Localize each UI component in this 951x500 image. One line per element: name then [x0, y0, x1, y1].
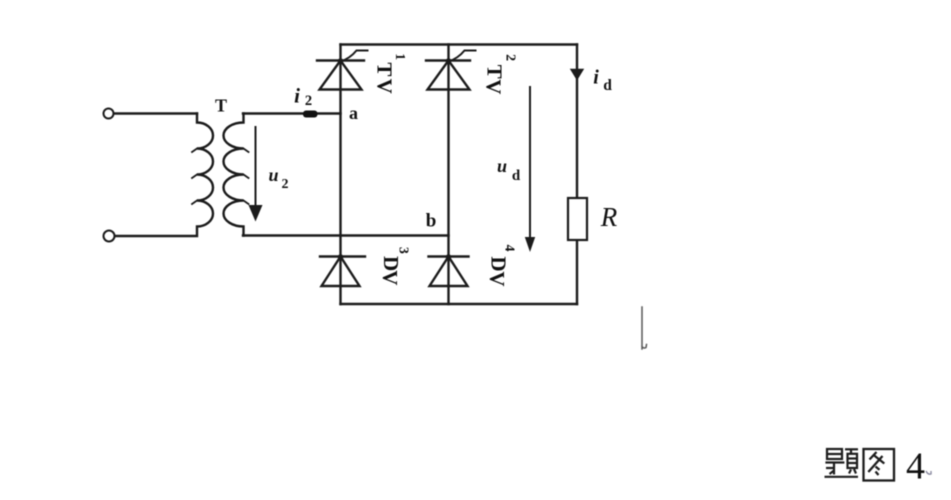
wire bottom rail — [341, 303, 578, 305]
transformer T primary winding — [115, 114, 213, 237]
label VD4 — [485, 245, 517, 287]
label VT2 — [482, 54, 518, 94]
svg-text:1: 1 — [392, 53, 407, 60]
arrow ud — [525, 87, 535, 252]
svg-text:D: D — [379, 256, 403, 271]
wire bridge right leg lower — [576, 240, 578, 304]
wire bridge middle leg — [447, 45, 449, 305]
wire secondary bottom to node b — [243, 234, 449, 236]
svg-text:d: d — [512, 168, 521, 184]
resistor R — [568, 198, 587, 240]
diode VD4 — [429, 254, 469, 286]
terminal top-left — [104, 109, 114, 119]
svg-text:4: 4 — [906, 446, 925, 488]
svg-text:V: V — [378, 270, 402, 285]
svg-text:V: V — [372, 79, 396, 94]
wire bridge left leg — [339, 45, 341, 305]
svg-text:2: 2 — [282, 177, 289, 192]
caption tu (图) — [864, 449, 895, 481]
svg-text:4: 4 — [502, 245, 517, 252]
svg-text:V: V — [485, 271, 509, 286]
wire top rail — [341, 43, 578, 45]
wire secondary top to node a — [243, 112, 341, 114]
terminal bottom-left — [104, 231, 115, 242]
wire primary top — [114, 112, 197, 114]
caption pilcrow mark — [926, 471, 931, 474]
svg-text:T: T — [482, 65, 506, 79]
arrow i2 mark — [303, 111, 318, 118]
caption ti (题) — [825, 449, 859, 477]
svg-text:i: i — [593, 67, 599, 89]
transformer coil cusp marks — [192, 149, 197, 205]
thyristor VT1 — [317, 51, 368, 90]
transformer T secondary winding — [224, 114, 244, 236]
svg-text:a: a — [349, 103, 358, 123]
svg-text:2: 2 — [305, 93, 312, 109]
svg-text:V: V — [482, 79, 506, 94]
svg-text:u: u — [268, 165, 278, 185]
svg-text:b: b — [426, 211, 437, 232]
svg-text:u: u — [497, 156, 507, 176]
thyristor VT2 — [426, 51, 476, 90]
label VT1 — [372, 53, 407, 93]
wire bridge right leg upper — [576, 45, 578, 199]
stray mark — [642, 307, 647, 349]
arrow u2 — [249, 127, 263, 222]
svg-text:T: T — [215, 96, 227, 116]
svg-text:3: 3 — [396, 247, 411, 254]
svg-text:R: R — [600, 202, 618, 232]
svg-text:d: d — [603, 77, 612, 94]
label VD3 — [378, 247, 411, 285]
diode VD3 — [320, 254, 365, 286]
svg-text:i: i — [294, 84, 300, 108]
svg-text:2: 2 — [502, 54, 517, 61]
svg-text:T: T — [373, 62, 397, 76]
arrow id — [570, 69, 584, 81]
svg-text:D: D — [487, 256, 511, 271]
